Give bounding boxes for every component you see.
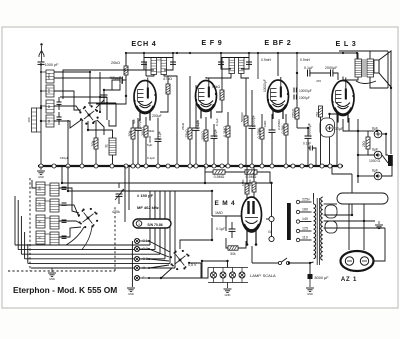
wire ra in — [205, 171, 213, 173]
svg-text:300Ω: 300Ω — [141, 127, 145, 136]
filament winding loop 2 — [325, 221, 337, 233]
capacitor IFT1 left — [141, 62, 147, 64]
tube EM4 magic eye — [242, 197, 262, 246]
label 150uF — [60, 156, 69, 160]
wire ech4 leg2 — [145, 117, 147, 126]
coil antenna band 91 — [46, 115, 54, 127]
capacitor osc coupling — [101, 95, 108, 97]
label 150pF — [137, 193, 154, 198]
wire em4 a dn — [246, 194, 248, 198]
wire j1 sw — [149, 241, 170, 252]
wire jack stub — [266, 218, 269, 220]
svg-text:470: 470 — [316, 79, 321, 83]
wire HT rail — [126, 52, 357, 54]
wire cap2000 out — [333, 73, 338, 80]
wire osc link top — [63, 70, 144, 99]
svg-text:0.1µF: 0.1µF — [147, 156, 155, 160]
wire speaker to field — [390, 88, 392, 154]
wire ift1 top — [144, 57, 173, 59]
resistor 25k — [185, 128, 192, 139]
wire switch to tube grid — [97, 96, 126, 104]
resistor EM4 cathode — [228, 246, 238, 256]
capacitor 10000pF — [263, 79, 276, 132]
svg-text:160: 160 — [302, 208, 308, 212]
svg-text:0.5MΩ: 0.5MΩ — [214, 175, 225, 179]
wire c l2 — [17, 200, 19, 250]
coil antenna band 90 — [46, 100, 54, 113]
wire ift2 sec — [241, 74, 249, 79]
junction — [250, 164, 254, 168]
wire trim1 — [58, 97, 60, 102]
wire ift2 anode — [206, 74, 231, 79]
wire em4 c dn — [231, 231, 233, 238]
wire collect up 2 — [154, 191, 156, 250]
junction — [156, 164, 160, 168]
wire switch arm out — [97, 120, 104, 135]
capacitor 465pF — [109, 76, 122, 84]
wire c10 up — [307, 128, 309, 136]
wire ef9 kcb — [213, 138, 215, 166]
wire em4 a up — [246, 166, 248, 184]
wire az1 right — [374, 228, 385, 261]
wire oscb 1 — [59, 188, 79, 213]
wire osc mesh v3 — [109, 103, 116, 126]
svg-text:470k: 470k — [112, 210, 120, 214]
junction — [260, 164, 264, 168]
wire tx prim bottom — [309, 263, 311, 276]
wire ift1 riser l — [143, 53, 145, 58]
capacitor IFT1 right — [170, 62, 176, 64]
label tube ECH4 — [131, 39, 156, 48]
svg-text:0.1µF: 0.1µF — [304, 66, 314, 70]
resistor 50k mixer — [128, 128, 135, 139]
svg-text:GND: GND — [307, 292, 313, 296]
wire choke2 down — [296, 73, 298, 128]
terminal tap 160 — [296, 208, 308, 214]
antenna — [39, 43, 44, 62]
wire trim2b — [58, 119, 60, 125]
coil osc band B1 — [50, 183, 59, 196]
capacitor 5000pF det — [249, 114, 256, 128]
junction — [94, 164, 98, 168]
wire osc mesh v1 — [99, 72, 101, 112]
wire screen res up — [168, 76, 177, 84]
wire ebf2 anode rail — [277, 53, 279, 76]
wire ot sec bottom — [370, 77, 388, 88]
power transformer — [314, 197, 323, 265]
jack F — [134, 275, 144, 280]
junction — [144, 164, 148, 168]
junction — [239, 164, 243, 168]
ground coil bank — [48, 268, 56, 281]
coil osc band B2 — [50, 199, 59, 212]
capacitor 8000uF — [308, 274, 330, 280]
svg-text:GND: GND — [38, 175, 44, 179]
mechanical link dashed 3 — [114, 205, 116, 271]
wire tap 140 — [300, 221, 312, 223]
rotary switch tone S2 — [170, 250, 190, 270]
label 50kc — [196, 119, 200, 127]
resistor 20k top left — [111, 61, 128, 75]
wire jack C 3 stub — [140, 258, 150, 260]
wire to field — [382, 134, 388, 155]
wire az1 fil 1 — [348, 204, 350, 250]
coil oscillator padder — [105, 138, 117, 155]
capacitor 0.1uF EM4 — [216, 227, 236, 231]
mechanical link dashed 2 — [8, 270, 115, 272]
svg-text:5000pF: 5000pF — [240, 112, 244, 122]
wire avc 1 — [62, 182, 272, 184]
svg-text:25kΩ: 25kΩ — [185, 129, 189, 138]
wire switch bottom — [88, 121, 113, 132]
label anti — [316, 79, 321, 83]
svg-text:20kΩ: 20kΩ — [111, 61, 120, 65]
ground bus — [38, 165, 343, 167]
wire switch S1b arc b — [82, 227, 92, 250]
wire ef9 screen down — [216, 100, 222, 112]
wire ef9 kb — [205, 141, 207, 166]
ground heater — [375, 221, 383, 229]
wire cap to osc — [112, 80, 120, 90]
wire tx prim bot2 — [310, 262, 314, 263]
coil osc band A1 — [36, 182, 45, 195]
wire trim1b — [58, 104, 60, 110]
wire sw top out — [180, 218, 212, 249]
HT secondary loop — [337, 193, 388, 204]
wire trimmer up — [118, 183, 120, 188]
wire collect up 4 — [164, 191, 166, 259]
wire rail left drop — [125, 53, 127, 96]
wire collect 2 — [18, 249, 155, 251]
wire jack column — [131, 241, 133, 287]
wire j4 sw — [149, 265, 169, 268]
wire pair v2 — [128, 166, 130, 210]
choke 0.9mH 1 — [258, 53, 272, 79]
lamp dial 4 — [239, 268, 245, 283]
rail junction dots — [125, 52, 358, 54]
wire em4 r in — [226, 238, 228, 248]
wire el3 g3 — [349, 118, 358, 131]
svg-text:0.1µF: 0.1µF — [215, 118, 219, 126]
svg-text:300Ω: 300Ω — [148, 135, 152, 143]
svg-text:1500: 1500 — [47, 73, 51, 80]
svg-text:1MΩ: 1MΩ — [215, 211, 223, 215]
wire mains to switch — [252, 262, 279, 264]
resistor 0.5M EM4 screen — [248, 179, 256, 192]
wire switch to resistor — [95, 120, 97, 138]
svg-text:50k: 50k — [230, 252, 236, 256]
svg-text:200µF: 200µF — [152, 114, 162, 118]
wire lamp top — [202, 261, 228, 268]
svg-text:91: 91 — [47, 119, 51, 123]
label 50k under ech4 — [147, 129, 155, 133]
wire em4 k dn — [251, 246, 253, 263]
wire cap2 in — [358, 154, 374, 156]
resistor 47k screen ECH4 — [163, 77, 172, 94]
wire ift2 c1 — [221, 58, 231, 70]
lamp dial 2 — [220, 268, 226, 283]
capacitor 200pF — [152, 114, 162, 141]
wire switch arm out2 — [96, 100, 104, 108]
wire el3 k dn — [336, 118, 338, 166]
rotary switch band selector S1b — [78, 208, 98, 228]
capacitor 100pF ECH4 k — [135, 118, 142, 130]
wire coil3 to switch — [54, 106, 81, 113]
svg-text:# 150 pF: # 150 pF — [137, 193, 154, 198]
wire tx r3 — [324, 220, 375, 222]
label 1000ohm — [369, 159, 380, 163]
resistor 25 field — [362, 137, 370, 149]
resistor 0.5M avc a — [213, 170, 225, 179]
wire resistor to bus — [95, 149, 97, 166]
svg-text:0.9mH: 0.9mH — [300, 58, 311, 62]
wire ef9 g — [195, 85, 197, 128]
coil osc band B3 — [50, 216, 59, 229]
wire cap3 in — [358, 175, 374, 177]
wire collect up 5 — [169, 191, 171, 263]
wire trim2 — [58, 112, 60, 117]
wire r25 dn — [368, 149, 374, 155]
label AZ1 — [341, 277, 357, 283]
wire ot prim top — [357, 53, 359, 59]
wire oscb 2 — [59, 205, 79, 217]
wire tx prim top — [313, 193, 315, 198]
wire speaker right — [387, 51, 389, 88]
svg-text:110: 110 — [302, 236, 308, 240]
wire el3 anode stub — [342, 77, 344, 81]
junction — [291, 164, 295, 168]
svg-text:140: 140 — [302, 217, 308, 221]
wire j5 sw — [149, 268, 172, 278]
wire cap3 out — [382, 165, 392, 176]
label 1MO — [263, 120, 267, 127]
wire em4 r out — [238, 241, 246, 248]
rotary switch band selector S1a — [79, 105, 98, 124]
jack pickup 2 — [269, 236, 274, 241]
wire az1 fil 2 — [363, 204, 365, 250]
wire jacks — [271, 222, 273, 237]
wire oscb 3 — [59, 221, 80, 223]
wire tap 225v — [300, 201, 312, 203]
wire af cap in — [308, 140, 310, 148]
svg-text:180: 180 — [38, 186, 42, 191]
wire ech4 leg2b — [145, 137, 147, 166]
svg-text:E L 3: E L 3 — [335, 39, 356, 48]
wire ift2 c2 — [241, 58, 249, 70]
wire dlb — [285, 135, 287, 166]
ground mains cap — [306, 279, 314, 296]
junction — [328, 164, 332, 168]
wire to field2 — [382, 155, 388, 163]
label 5000pF — [240, 112, 244, 122]
wire cap left — [122, 75, 126, 80]
wire jack C 2 stub — [140, 248, 150, 250]
wire rail to output transformer — [356, 53, 358, 60]
wire ech4 leg1b — [137, 130, 139, 166]
wire switch S1b arc a — [66, 227, 84, 245]
wire 30uf up — [330, 114, 338, 118]
svg-text:1000µF: 1000µF — [299, 96, 310, 100]
wire c l1 — [14, 196, 16, 245]
wire pair v1 — [124, 166, 126, 222]
wire jack M stub — [140, 267, 150, 269]
wire tap 125 — [300, 230, 312, 232]
osc mesh dots — [89, 71, 108, 113]
wire 50k up — [132, 120, 134, 128]
svg-text:AZ 1: AZ 1 — [341, 277, 357, 283]
resistor EBF2 cathode — [257, 128, 264, 139]
svg-text:2000µF: 2000µF — [325, 66, 338, 70]
wire if2 sec v — [245, 78, 247, 116]
junction — [39, 164, 43, 168]
wire c10 dn — [307, 138, 309, 166]
wire c l4 — [24, 232, 26, 259]
capacitor 2000pF — [325, 66, 338, 77]
svg-text:180: 180 — [27, 117, 31, 122]
junction — [226, 164, 230, 168]
label 5uF — [132, 119, 136, 124]
wire c l3 — [20, 216, 22, 254]
terminal tap 125 — [296, 227, 308, 233]
wire collect 1 — [15, 244, 150, 246]
svg-text:0,5 V: 0,5 V — [188, 263, 197, 267]
wire j3 sw — [149, 259, 169, 261]
wire padder bottom — [112, 155, 114, 166]
wire 25k up — [189, 76, 191, 128]
junction — [212, 164, 216, 168]
wire antenna down — [40, 64, 42, 166]
coil osc band A2 — [36, 198, 45, 211]
jack pickup 1 — [269, 216, 274, 221]
label 5uF under ech4 — [147, 143, 153, 147]
resistor if2 sec — [244, 116, 248, 126]
capacitor 0.1uF af — [303, 142, 312, 151]
wire ht feed right — [357, 119, 359, 183]
resistor 760 EL3 cathode — [315, 106, 323, 117]
resistor screen EF9 — [212, 85, 224, 100]
svg-text:1000 pF: 1000 pF — [45, 63, 60, 67]
capacitor 0.1uF coupling — [304, 66, 314, 77]
jack C 1 — [134, 238, 147, 243]
capacitor EF9 k bypass — [211, 128, 218, 138]
mains bar — [287, 203, 291, 240]
junction — [204, 164, 208, 168]
wire rail drop detail — [125, 53, 127, 66]
junction — [309, 164, 313, 168]
svg-text:E BF 2: E BF 2 — [264, 38, 291, 47]
wire ift1 c1 — [144, 58, 154, 71]
wire ift1 sec down — [164, 75, 177, 167]
IF transformer 1 — [151, 58, 167, 75]
junction — [66, 164, 70, 168]
resistor diode load — [281, 124, 288, 135]
capacitor padding — [62, 220, 67, 222]
wire ot sec top — [369, 51, 371, 59]
wire ebf2 kb — [261, 139, 263, 166]
terminal tap 140 — [296, 217, 308, 223]
wire lamp left — [196, 268, 208, 279]
svg-text:ECH 4: ECH 4 — [131, 39, 156, 48]
wire coil4 to switch — [54, 120, 81, 128]
lamp scala box — [208, 268, 248, 283]
wire ift1 c2 — [164, 58, 173, 71]
capacitor 30uF EL3 cathode — [320, 118, 344, 137]
svg-text:0.1µF: 0.1µF — [303, 142, 311, 146]
resistor 1M EM4 grid — [215, 211, 223, 215]
wire collect up 6 — [174, 191, 176, 268]
svg-text:0.25MΩ: 0.25MΩ — [277, 119, 281, 130]
wire avc 2 — [68, 190, 175, 192]
junction — [270, 164, 274, 168]
junction — [188, 164, 192, 168]
wire em4 s up — [253, 166, 255, 182]
wire oscb left — [32, 180, 36, 188]
wire r03 down — [227, 137, 229, 166]
wire el3 anode? — [343, 119, 358, 131]
wire tap 110 — [300, 239, 312, 241]
junction — [110, 164, 114, 168]
wire em4 grid — [212, 215, 241, 217]
junction — [194, 164, 198, 168]
output transformer — [355, 59, 376, 84]
speaker field terminal — [388, 155, 393, 166]
wire ot to anode — [343, 77, 358, 80]
junction dots misc — [40, 63, 392, 279]
svg-text:50kΩ: 50kΩ — [212, 85, 220, 89]
speaker — [374, 51, 391, 87]
label 300ohm — [148, 135, 152, 143]
wire ant to grid — [54, 78, 122, 84]
svg-text:0.5M: 0.5M — [281, 126, 285, 134]
wire r03 up — [227, 112, 229, 126]
junction — [175, 164, 179, 168]
wire if2 sec v2 — [245, 126, 247, 166]
label 25k2 — [181, 122, 185, 130]
resistor 1M EM4 anode — [241, 179, 249, 194]
svg-text:150: 150 — [47, 88, 51, 93]
capacitor 10000pF ebf2 out — [305, 122, 312, 138]
svg-text:31: 31 — [105, 144, 109, 148]
wire ift2 riser l — [220, 53, 222, 58]
svg-text:GND: GND — [128, 292, 134, 296]
capacitor EF9 grid — [193, 119, 200, 130]
capacitor filter 8µF 3 — [372, 168, 382, 179]
svg-text:1MΩ: 1MΩ — [241, 179, 245, 186]
badge S/N 70-86 — [133, 219, 171, 228]
caption Eterphon Mod K555OM — [13, 285, 117, 295]
label gram — [268, 230, 273, 234]
svg-text:8µF: 8µF — [372, 168, 378, 172]
wire 760 dn — [320, 117, 322, 166]
power switch — [278, 258, 289, 265]
wire avc v2 — [67, 166, 69, 191]
capacitor 10000pF diode 1 — [294, 88, 312, 94]
wire c l5 — [27, 244, 29, 263]
coil osc band A4 — [36, 231, 45, 244]
wire ef9 screen up — [221, 58, 223, 91]
wire collect 5 — [28, 262, 170, 264]
wire cap1 in — [358, 130, 374, 132]
svg-text:0.25M: 0.25M — [257, 129, 261, 139]
wire ech4 leg3b — [157, 141, 159, 166]
tube AZ1 — [341, 251, 374, 271]
tube ECH4 — [134, 78, 157, 121]
wire screen res down — [160, 94, 168, 112]
wire collect 3 — [21, 253, 160, 255]
wire ebf2 l — [271, 114, 273, 130]
label tube EF9 — [201, 38, 222, 47]
label 0.1 b — [215, 118, 219, 126]
